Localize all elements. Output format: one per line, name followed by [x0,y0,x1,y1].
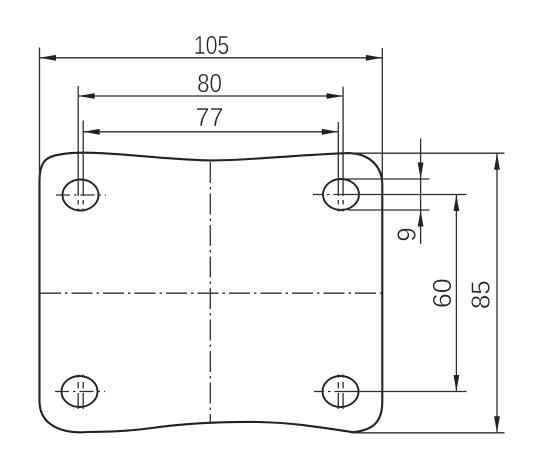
extension line left for 77 [82,121,84,197]
extension line bottom right (plate bottom) [352,432,505,434]
hole bottom-left [62,376,98,407]
centerline hole BL horizontal [55,391,105,393]
arrow 77 left [83,129,100,135]
centerline hole TR horizontal left part [313,194,341,196]
hole top-right [323,179,359,210]
extension line left for 80 [77,86,79,196]
extension line tangent bottom of TR hole [348,209,430,211]
dashes below TR hole center (77 ext) [337,200,339,212]
dashes below TR hole center (80 ext) [342,200,344,212]
svg-text:77: 77 [195,104,223,132]
extension line right for 105 [381,48,383,184]
arrow 9 bottom (pointing up) [418,210,424,227]
dim line 85 [496,153,498,433]
dashes below TL hole center (80 ext) [77,200,79,212]
dashes below TL hole center (77 ext) [82,200,84,212]
svg-text:105: 105 [194,31,230,61]
dim line 77 [83,131,338,133]
arrow 85 bottom [494,416,500,433]
arrow 105 left [40,55,57,61]
arrow 80 left [78,93,95,99]
svg-text:85: 85 [466,280,496,309]
arrow 60 bottom [454,375,460,392]
arrow 80 right [327,93,344,99]
dim line 9 [420,139,422,245]
arrow 105 right [366,55,383,61]
dim line 105 [40,57,383,59]
extension line top right (plate top) [350,152,505,154]
arrow 60 top [454,195,460,212]
svg-text:9: 9 [392,227,422,241]
extension line BR hole center to 60-dim [341,391,467,393]
arrow 77 right [322,129,339,135]
centerline hole BR vertical pair [338,375,343,410]
arrow 9 top (pointing down) [418,163,424,180]
extension line right for 77 [337,122,339,196]
dim line 60 [455,195,457,392]
extension line TR hole center to 60-dim [341,194,467,196]
extension line tangent top of TR hole [341,178,430,180]
arrow 85 top [494,153,500,170]
hole bottom-right [323,376,359,407]
centerline hole BL vertical pair [78,375,83,410]
extension line left for 105 [39,48,41,181]
centerline hole TL horizontal [56,194,106,196]
plate outline [40,153,383,433]
centerline hole BR horizontal left part [314,391,341,393]
svg-text:80: 80 [197,70,222,99]
extension line right for 80 [342,87,344,196]
centerline horizontal plate [40,292,382,294]
dim line 80 [78,95,343,97]
svg-text:60: 60 [427,278,457,308]
centerline vertical plate [209,162,211,424]
hole top-left [63,180,99,211]
